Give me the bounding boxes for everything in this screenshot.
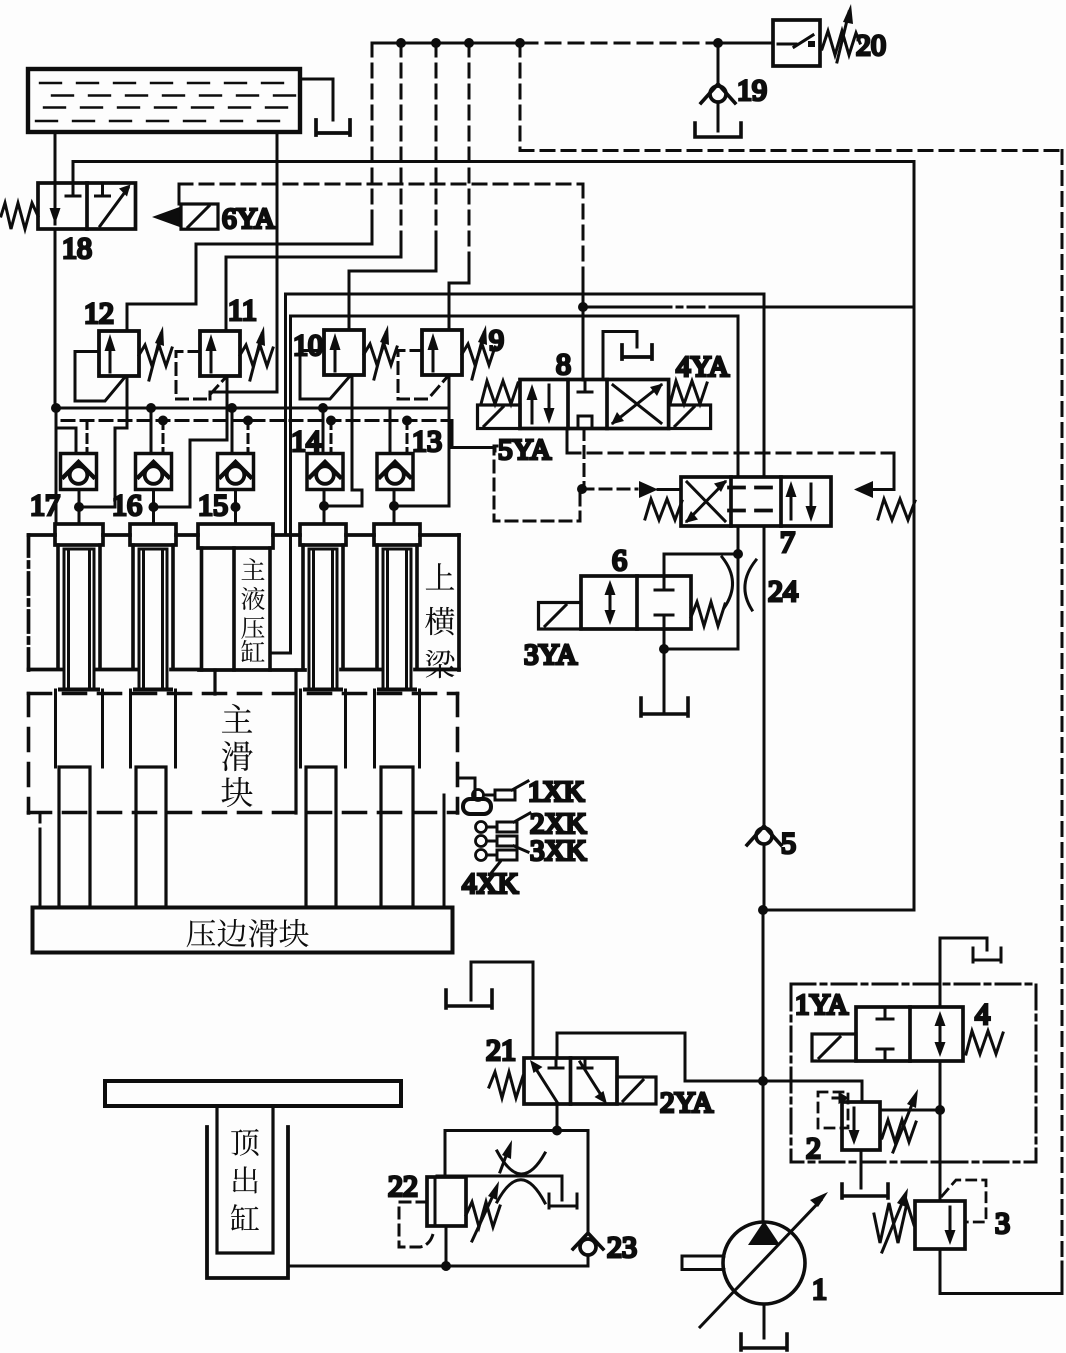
wire valve 3 outlet loop: [940, 1249, 1062, 1294]
spring right of valve 6: [691, 602, 725, 626]
svg-text:3: 3: [995, 1207, 1010, 1240]
svg-text:1XK: 1XK: [528, 776, 584, 808]
svg-text:18: 18: [62, 232, 92, 265]
check valve 13: [377, 454, 413, 490]
node D15: [243, 416, 253, 426]
wire check 16 outlet: [152, 490, 155, 525]
wire feed check 17: [56, 408, 76, 453]
wire check 13 outlet: [393, 490, 396, 525]
limit switch 1XK: [473, 781, 529, 801]
solenoid 4YA of valve 8: [669, 405, 711, 429]
upper beam outline: [29, 535, 460, 670]
spring of valve 9: [462, 344, 495, 365]
blank holder piston B4: [381, 767, 413, 907]
wire loop of valve 12: [75, 352, 125, 402]
svg-text:14: 14: [291, 425, 321, 458]
valve 2 body: [833, 1095, 880, 1151]
top manifold line: [372, 42, 523, 45]
wire valve 8 drain to tank: [603, 332, 637, 380]
blank holder piston B3: [306, 767, 336, 907]
cylinder C13 rod tube: [379, 549, 415, 690]
relief valve 10: [324, 330, 364, 375]
wire check 17 outlet: [78, 490, 81, 525]
wire right pressure rail: [763, 162, 914, 911]
limit switch 3XK: [476, 836, 529, 853]
ejector rod: [217, 1106, 273, 1253]
wire line5 left drop: [284, 294, 287, 535]
node D13: [402, 416, 412, 426]
spring left of valve 7: [645, 499, 682, 520]
wire feed check 16: [150, 408, 153, 453]
node V2R: [935, 1105, 945, 1115]
pilot box of valve 2 dashed: [818, 1092, 848, 1128]
wire valve 6 top port: [664, 554, 738, 576]
check valve 17: [61, 454, 97, 490]
cylinder C17 rod tube: [60, 549, 98, 690]
oil tank T1: [28, 69, 300, 132]
node V6B: [659, 644, 669, 654]
node O14: [319, 501, 329, 511]
wire valve 2 outlet to tank: [860, 1150, 863, 1188]
wire pilot box 5YA dashed: [494, 446, 580, 521]
solenoid 1YA of valve 4: [812, 1034, 856, 1061]
wire feed check 15: [231, 408, 234, 453]
wire pilot box to manifold: [452, 421, 495, 452]
adjust arrow of throttle 22: [500, 1148, 509, 1172]
tank symbol of throttle drain: [549, 1194, 577, 1208]
throttle 22 arcs: [437, 1151, 562, 1203]
spring of valve 12: [139, 345, 172, 366]
svg-text:9: 9: [489, 324, 504, 357]
wire pilot stub check 17: [86, 421, 89, 454]
wire L2 through valve 7 down to check 5: [763, 526, 766, 824]
wire check manifold solid: [55, 407, 449, 410]
adjust arrow of valve 22: [472, 1189, 496, 1241]
svg-text:13: 13: [412, 425, 442, 458]
wire valve 8 port B down: [566, 429, 569, 454]
spring of valve 18: [1, 203, 38, 229]
wire staircase S4 to valve 9: [468, 43, 471, 260]
svg-text:23: 23: [607, 1231, 637, 1264]
wire valve 12 outlet: [79, 376, 127, 507]
wire pilot of valve 22 dashed: [399, 1202, 433, 1247]
wire check 14 outlet: [323, 490, 326, 525]
svg-text:21: 21: [486, 1034, 516, 1067]
svg-text:10: 10: [293, 329, 323, 362]
spring right of valve 4: [966, 1031, 1003, 1054]
wire staircase S2 to valve 11: [400, 43, 403, 234]
adjust arrow of valve 3: [882, 1196, 905, 1252]
wire valve 10 outlet: [323, 375, 362, 506]
cylinder C13 bore: [377, 545, 417, 668]
wire valve 21 A to pump rail: [557, 1033, 862, 1081]
valve 22 box: [427, 1177, 466, 1226]
spring right of valve 7: [878, 499, 915, 520]
svg-text:6YA: 6YA: [222, 203, 275, 235]
spring of switch 20: [822, 31, 860, 55]
valve 7 body: [681, 477, 831, 526]
wire valve 2 spring link: [880, 1109, 940, 1112]
svg-text:6: 6: [612, 544, 627, 577]
node O13: [389, 501, 399, 511]
node PB: [577, 484, 587, 494]
wire pilot stub check 13: [406, 421, 409, 454]
node M5: [713, 38, 723, 48]
wire line6 to valve6 branch: [291, 316, 739, 477]
pressure switch 20: [773, 20, 820, 66]
wire valve 21 T drain: [471, 962, 533, 1058]
node M1: [396, 38, 406, 48]
label main slider text: [222, 704, 253, 807]
valve 4 body: [856, 1007, 963, 1061]
node O16: [149, 502, 159, 512]
wire left rail below valve 18: [54, 229, 57, 408]
limit switch 2XK: [476, 813, 531, 833]
node K14: [318, 403, 328, 413]
svg-text:3XK: 3XK: [530, 835, 586, 867]
svg-text:1YA: 1YA: [795, 989, 848, 1021]
wire valve 2 inlet: [861, 1081, 864, 1102]
svg-text:7: 7: [780, 526, 795, 559]
node D16: [158, 416, 168, 426]
relief valve 9: [422, 330, 462, 375]
cylinder C16 cap: [130, 524, 176, 545]
svg-text:20: 20: [856, 29, 886, 62]
svg-text:12: 12: [84, 297, 114, 330]
wire valve 9 outlet: [394, 375, 449, 506]
svg-text:2: 2: [806, 1132, 821, 1165]
wire valve 8 port A down dashed: [583, 429, 586, 490]
cylinder C13 rods below: [375, 690, 420, 767]
solenoid 3YA of valve 6: [539, 603, 582, 630]
svg-text:8: 8: [556, 348, 571, 381]
wire tank right outlet to drain: [300, 79, 333, 120]
wire left rail to cylinder 1: [55, 408, 58, 524]
spring left of valve 8: [481, 381, 518, 404]
node K15: [227, 403, 237, 413]
limit switch 4XK: [476, 850, 518, 873]
check valve 19: [701, 43, 735, 131]
wire supply line y=161 from valve 18 to right box: [73, 162, 914, 184]
throttle 24: [722, 554, 756, 649]
wire valve 21 P down: [556, 1104, 559, 1131]
cylinder C14 bore: [303, 545, 343, 668]
pilot arrow right of valve 7: [854, 481, 873, 498]
node M2: [431, 38, 441, 48]
solenoid 5YA of valve 8: [478, 405, 521, 429]
drain tank symbol near main tank: [316, 120, 350, 135]
blank holder piston B2: [136, 767, 166, 907]
svg-text:3YA: 3YA: [524, 639, 577, 671]
wire feed check 14: [322, 408, 325, 453]
wire valve 6 bottom to tank: [663, 629, 666, 712]
main cylinder walls: [202, 548, 271, 670]
node K17: [51, 403, 61, 413]
solenoid 6YA of valve 18: [152, 204, 218, 229]
wire pilot stub check 16: [162, 421, 165, 454]
pilot arrow left of valve 7: [639, 481, 658, 498]
cylinder C16 bore: [133, 545, 173, 668]
wire dashed B to right pilot: [567, 452, 894, 455]
relief valve 11: [200, 331, 240, 376]
svg-text:24: 24: [768, 575, 798, 608]
wire line6 left drop into main cylinder: [270, 316, 291, 653]
adjust arrow of valve 9: [472, 333, 484, 379]
tank symbol under pump: [741, 1334, 787, 1350]
ejector cylinder body: [207, 1127, 288, 1278]
wire throttle drain: [561, 1176, 564, 1200]
limit switch bracket: [458, 778, 475, 799]
wire throttle 22 top: [445, 1129, 588, 1132]
valve 6 body: [581, 576, 691, 629]
wire pilot 6YA dashed: [178, 184, 181, 204]
svg-text:4: 4: [975, 998, 990, 1031]
cylinder C16 rod tube: [135, 549, 171, 690]
wire pump rail vertical: [762, 910, 765, 1222]
node V22B: [441, 1261, 451, 1271]
blank holder piston B1: [59, 767, 90, 907]
tank symbol under valve 2: [842, 1184, 888, 1198]
wire throttle 24 bottom link: [664, 648, 738, 651]
blank holder slider: [33, 908, 453, 953]
wire valve 22 bottom: [445, 1226, 448, 1266]
node P8: [578, 302, 588, 312]
wire y307 to right edge: [583, 306, 655, 309]
wire tank right outlet down: [210, 132, 277, 399]
solenoid 2YA of valve 21: [617, 1077, 656, 1104]
wire tank left outlet down to valve 18: [54, 132, 57, 184]
wire check manifold dashed pilot: [62, 419, 452, 422]
relief valve 12: [99, 331, 139, 376]
arrow adjuster of 20: [837, 12, 849, 62]
main ram: [215, 670, 296, 813]
wire pump suction: [763, 1304, 766, 1338]
main slider dashed box: [29, 694, 458, 814]
svg-text:4XK: 4XK: [462, 868, 518, 900]
svg-text:2YA: 2YA: [660, 1087, 713, 1119]
cylinder C14 cap: [300, 524, 346, 545]
main cylinder cap: [198, 524, 273, 548]
adjust arrow of valve 10: [374, 333, 386, 379]
tank symbol of valve 8 drain: [622, 345, 652, 359]
node M3: [464, 38, 474, 48]
wire valve 4 drain: [940, 938, 987, 1007]
wire valve 4 through line down: [939, 1061, 942, 1201]
pump 1: [682, 1192, 828, 1327]
svg-text:5: 5: [781, 827, 796, 860]
cylinder C14 rods below: [301, 690, 346, 767]
node V21P: [552, 1126, 562, 1136]
check valve 14: [307, 454, 343, 490]
support column right: [443, 795, 446, 907]
cylinder C17 bore: [58, 545, 100, 668]
adjust arrow of valve 11: [250, 334, 262, 380]
spring left of valve 3: [874, 1203, 914, 1243]
ejector platen: [105, 1081, 401, 1106]
spring of valve 11: [240, 345, 273, 366]
wire pilot stub check 14: [330, 421, 333, 454]
wire line5 upper chamber to pump rail: [286, 294, 765, 477]
wire pilot to valve 7 left dashed: [582, 488, 637, 491]
tank symbol of valve 4 drain: [973, 948, 1001, 962]
node D14: [326, 416, 336, 426]
check valve 5: [747, 826, 781, 910]
svg-text:15: 15: [198, 489, 228, 522]
valve 21 body: [524, 1058, 617, 1104]
station dash-dot box: [791, 984, 1036, 1162]
adjust arrow of valve 12: [149, 334, 161, 380]
svg-text:22: 22: [388, 1170, 418, 1203]
spring right of valve 2: [882, 1120, 916, 1142]
cylinder C14 rod tube: [305, 549, 341, 690]
node O15: [231, 502, 241, 512]
spring right of valve 22: [466, 1202, 500, 1227]
node PJ: [758, 1076, 768, 1086]
wire check 15 outlet: [234, 490, 237, 525]
label blank holder text: [187, 919, 309, 947]
svg-text:19: 19: [737, 74, 767, 107]
svg-text:4YA: 4YA: [676, 351, 729, 383]
adjust arrow of valve 2: [893, 1097, 915, 1152]
wire valve 11 outlet: [153, 376, 227, 507]
wire feed check 13: [389, 408, 392, 453]
svg-text:1: 1: [812, 1273, 827, 1306]
svg-text:16: 16: [112, 489, 142, 522]
node V6T: [733, 549, 743, 559]
label ejector text: [231, 1129, 259, 1231]
check valve 16: [136, 454, 172, 490]
spring of valve 10: [364, 344, 397, 365]
wire staircase S3 to valve 10: [435, 43, 438, 248]
support column left: [39, 813, 42, 830]
valve 18 body: [38, 183, 136, 229]
spring left of valve 21: [489, 1072, 523, 1098]
valve 8 body: [520, 380, 669, 429]
wire pilot loop of valve 11 dashed: [176, 352, 226, 400]
node N910: [758, 905, 768, 915]
wire loop of valve 10: [300, 351, 350, 400]
valve 3 body: [915, 1201, 965, 1249]
wire pilot loop of valve 9 dashed: [398, 351, 448, 400]
tank symbol under valve 6: [641, 698, 688, 716]
wire staircase S1 to valve 12: [371, 43, 374, 222]
cylinder C17 cap: [55, 524, 103, 545]
pilot of valve 3 dashed: [942, 1180, 986, 1222]
check valve 15: [218, 454, 254, 490]
svg-text:5YA: 5YA: [498, 434, 551, 466]
wire dashed top right loop: [519, 43, 522, 151]
cylinder C17 rods below: [56, 690, 103, 767]
node M4: [515, 38, 525, 48]
cylinder C16 rods below: [131, 690, 176, 767]
tank symbol under check valve 19: [695, 123, 741, 137]
check valve 23: [573, 1233, 603, 1266]
wire pilot stub check 15: [247, 421, 250, 454]
node K16: [146, 403, 156, 413]
wire ejector line: [288, 1265, 588, 1268]
label main cylinder text: [241, 558, 264, 662]
tank symbol for valve 21 drain: [446, 990, 492, 1008]
spring right of valve 8: [670, 381, 707, 404]
node O17: [74, 502, 84, 512]
svg-text:11: 11: [228, 294, 257, 327]
cylinder C13 cap: [374, 524, 420, 545]
wire L1 valve6 branch below valve 7: [737, 526, 740, 554]
label beam text: [425, 563, 454, 678]
